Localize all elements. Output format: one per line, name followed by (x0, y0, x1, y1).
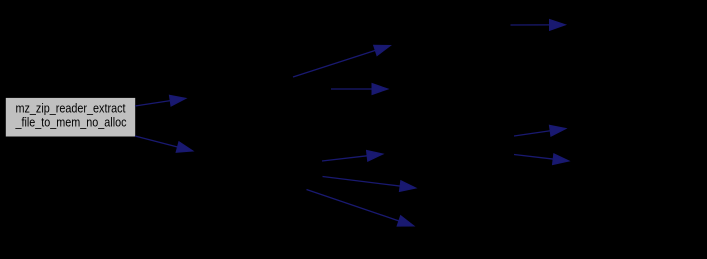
svg-text:_file_to_mem_no_alloc: _file_to_mem_no_alloc (15, 116, 127, 130)
svg-text:mz_zip_reader_extract: mz_zip_reader_extract (16, 102, 126, 116)
